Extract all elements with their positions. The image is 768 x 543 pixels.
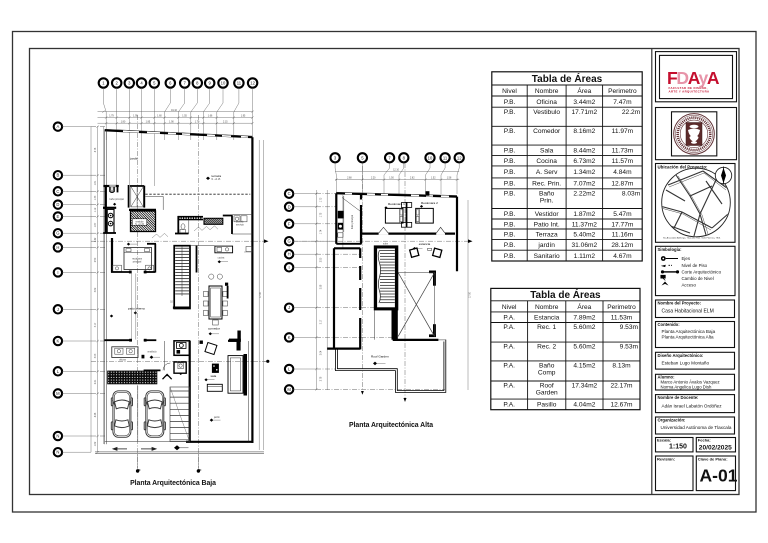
left grid dash-dot lines planta alta <box>316 194 445 390</box>
section cut horizontal planta alta <box>293 240 468 242</box>
svg-text:P.A.: P.A. <box>503 344 515 351</box>
svg-text:Nombre de Docente:: Nombre de Docente: <box>658 395 699 400</box>
svg-text:1.52: 1.52 <box>431 178 436 180</box>
svg-text:Sanitario: Sanitario <box>534 253 560 260</box>
svg-text:patio interno: patio interno <box>128 307 145 311</box>
svg-text:K: K <box>57 339 60 344</box>
svg-text:servicio: servicio <box>236 224 245 227</box>
svg-text:jardín: jardín <box>537 242 555 249</box>
door jamb brackets right wall <box>433 271 436 286</box>
kitchen <box>215 246 233 253</box>
svg-text:10: 10 <box>428 156 433 161</box>
svg-text:Acceso: Acceso <box>682 282 697 287</box>
svg-text:11.16m: 11.16m <box>612 232 634 239</box>
svg-text:4.26: 4.26 <box>95 412 97 417</box>
closet strip (black with dots) <box>179 216 204 220</box>
wall near sala <box>244 354 248 396</box>
property lines bottom <box>95 452 264 454</box>
svg-text:principal: principal <box>133 260 142 263</box>
svg-text:1.62: 1.62 <box>95 441 97 446</box>
svg-text:17.71m2: 17.71m2 <box>572 109 598 116</box>
svg-text:4.76: 4.76 <box>95 147 97 152</box>
oficina desks <box>112 347 138 358</box>
university seal <box>674 114 715 155</box>
svg-text:Comedor: Comedor <box>533 128 561 135</box>
svg-text:19.10: 19.10 <box>171 110 177 112</box>
svg-text:H: H <box>288 252 291 257</box>
svg-text:3.44m2: 3.44m2 <box>573 99 595 106</box>
svg-text:M: M <box>56 391 60 396</box>
vestibulo <box>142 355 145 359</box>
vestidor closet X <box>131 187 144 207</box>
diseño arquitectonico <box>656 352 735 369</box>
terraza label <box>206 177 210 180</box>
svg-text:recámara: recámara <box>132 257 142 260</box>
svg-text:9.53m: 9.53m <box>620 324 639 331</box>
svg-text:P.B.: P.B. <box>504 109 516 116</box>
recamara walls <box>362 233 455 235</box>
svg-text:1.85: 1.85 <box>146 121 151 123</box>
svg-text:7.89m2: 7.89m2 <box>573 315 595 322</box>
svg-text:P.A.: P.A. <box>503 324 515 331</box>
svg-text:2.62: 2.62 <box>410 178 415 180</box>
svg-text:8.44m2: 8.44m2 <box>573 148 595 155</box>
svg-text:Planta Arquitectónica Alta: Planta Arquitectónica Alta <box>662 334 715 339</box>
svg-text:P.B.: P.B. <box>504 221 516 228</box>
svg-text:1.61: 1.61 <box>95 180 97 185</box>
svg-text:1.11m2: 1.11m2 <box>574 253 596 260</box>
svg-text:4.15m2: 4.15m2 <box>573 363 595 370</box>
svg-text:Baño: Baño <box>539 363 555 370</box>
svg-text:jardín: jardín <box>213 416 220 419</box>
svg-text:11.73m: 11.73m <box>612 148 634 155</box>
svg-text:1.19: 1.19 <box>95 207 97 212</box>
svg-text:Área: Área <box>577 86 591 95</box>
svg-text:1.75: 1.75 <box>321 212 323 217</box>
svg-text:2.78: 2.78 <box>321 376 323 381</box>
svg-text:N. +0.15: N. +0.15 <box>135 224 144 226</box>
svg-text:P.B.: P.B. <box>504 190 516 197</box>
svg-text:Área: Área <box>577 302 591 311</box>
compass <box>715 167 731 183</box>
comedor table <box>209 286 222 319</box>
svg-text:17.90: 17.90 <box>470 291 472 297</box>
svg-text:2.22m2: 2.22m2 <box>573 190 595 197</box>
svg-text:jardín: jardín <box>129 157 138 161</box>
svg-text:D: D <box>288 204 291 209</box>
svg-text:terraza: terraza <box>212 174 222 178</box>
svg-text:A-01: A-01 <box>700 466 738 486</box>
stairwell planta baja <box>174 246 190 309</box>
svg-text:11: 11 <box>237 81 242 86</box>
svg-text:17.34m2: 17.34m2 <box>572 383 598 390</box>
svg-text:1.42: 1.42 <box>95 237 97 242</box>
svg-text:12: 12 <box>250 81 255 86</box>
svg-text:3.04: 3.04 <box>321 350 323 355</box>
svg-text:5.47m: 5.47m <box>613 211 632 218</box>
contenido <box>656 322 735 348</box>
wall area servicio <box>231 215 233 234</box>
svg-text:5.60m2: 5.60m2 <box>573 324 595 331</box>
svg-text:1.73: 1.73 <box>321 197 323 202</box>
svg-text:Roof Garden: Roof Garden <box>371 354 389 358</box>
alumno <box>656 374 735 390</box>
svg-text:Cocina: Cocina <box>536 158 557 165</box>
svg-text:Revisión:: Revisión: <box>657 456 675 461</box>
car 1 <box>111 391 132 438</box>
svg-text:J: J <box>288 305 290 310</box>
svg-text:Planta Arquitectónica Baja: Planta Arquitectónica Baja <box>662 329 716 334</box>
X brace double height <box>398 273 435 337</box>
svg-text:Patio Int.: Patio Int. <box>534 221 560 228</box>
sala furniture <box>205 343 217 355</box>
svg-text:Simbología:: Simbología: <box>658 247 682 252</box>
svg-text:12.87m: 12.87m <box>611 181 634 188</box>
svg-text:P.B.: P.B. <box>504 158 516 165</box>
svg-text:cocina: cocina <box>218 258 225 260</box>
svg-text:12.10: 12.10 <box>393 169 399 171</box>
svg-text:4.04m2: 4.04m2 <box>573 402 595 409</box>
svg-text:8.03m: 8.03m <box>622 190 641 197</box>
top leaders planta alta <box>335 163 459 195</box>
recamara walls bottom <box>111 271 131 273</box>
grid bubbles top planta alta <box>331 153 340 162</box>
svg-text:N: N <box>56 450 59 455</box>
svg-text:Vestidor: Vestidor <box>535 211 560 218</box>
area de servicio appliances <box>234 216 240 222</box>
svg-text:Pasillo: Pasillo <box>537 402 557 409</box>
grid bubbles A-N left of planta baja <box>54 122 62 130</box>
svg-text:Estancia: Estancia <box>534 315 560 322</box>
simbologia box <box>656 246 736 295</box>
svg-text:área de: área de <box>236 221 245 224</box>
zigzag near baño <box>107 209 114 233</box>
svg-text:3.17: 3.17 <box>95 322 97 327</box>
svg-text:Planta Arquitectónica Alta: Planta Arquitectónica Alta <box>349 422 433 429</box>
docente <box>656 395 735 413</box>
svg-text:ARTE Y ARQUITECTURA: ARTE Y ARQUITECTURA <box>669 90 711 94</box>
svg-text:6.73m2: 6.73m2 <box>573 158 595 165</box>
svg-text:3.69: 3.69 <box>95 287 97 292</box>
access arrow entry <box>163 374 172 379</box>
pasillo block walls <box>333 248 335 349</box>
section cut lines horizontal planta baja <box>91 241 264 361</box>
svg-text:22.2m: 22.2m <box>622 109 641 116</box>
svg-text:P.B.: P.B. <box>504 169 516 176</box>
svg-text:sala: sala <box>211 374 217 378</box>
svg-text:A. Serv: A. Serv <box>536 169 558 176</box>
svg-text:F: F <box>288 221 291 226</box>
svg-text:Nombre: Nombre <box>535 304 559 311</box>
outer walls planta alta <box>336 193 457 196</box>
svg-text:P.A.: P.A. <box>503 402 515 409</box>
svg-text:Casa Habitacional ELM: Casa Habitacional ELM <box>662 308 714 314</box>
svg-text:8.13m: 8.13m <box>612 363 631 370</box>
right dimension vertical planta alta <box>467 200 469 390</box>
svg-text:I: I <box>289 265 290 270</box>
svg-text:1.58: 1.58 <box>447 178 452 180</box>
svg-text:Escala:: Escala: <box>657 438 671 443</box>
svg-text:31.06m2: 31.06m2 <box>572 242 598 249</box>
svg-text:Comp: Comp <box>538 370 556 377</box>
svg-text:Nivel: Nivel <box>502 304 517 311</box>
svg-text:Perimetro: Perimetro <box>607 304 636 311</box>
svg-text:Prin.: Prin. <box>540 197 554 204</box>
svg-text:1.60: 1.60 <box>157 116 162 118</box>
svg-text:5.40m2: 5.40m2 <box>573 232 595 239</box>
logo box FDAyA <box>656 52 737 102</box>
svg-text:7.07m2: 7.07m2 <box>573 181 595 188</box>
svg-text:11: 11 <box>443 156 448 161</box>
svg-text:2.50: 2.50 <box>321 257 323 262</box>
svg-text:Nombre del Proyecto:: Nombre del Proyecto: <box>658 301 702 306</box>
svg-text:G: G <box>287 239 290 244</box>
dimension lines top planta alta <box>335 171 459 181</box>
svg-text:vestidor: vestidor <box>135 220 143 223</box>
svg-text:9.53m: 9.53m <box>620 344 639 351</box>
svg-text:P.B.: P.B. <box>504 128 516 135</box>
svg-text:Baño: Baño <box>539 190 555 197</box>
thick wall L <box>129 209 156 211</box>
access marker <box>174 445 180 450</box>
clave de plano <box>696 456 735 491</box>
sheet inner border <box>30 49 740 495</box>
svg-text:Universidad Autónoma de Tlaxca: Universidad Autónoma de Tlaxcala <box>661 425 732 430</box>
svg-text:Rec. 1: Rec. 1 <box>537 324 556 331</box>
svg-text:1.67: 1.67 <box>95 222 97 227</box>
nombre del proyecto <box>656 300 735 318</box>
svg-text:1.34m2: 1.34m2 <box>573 169 595 176</box>
svg-text:10: 10 <box>221 81 226 86</box>
svg-text:28.12m: 28.12m <box>611 242 634 249</box>
svg-text:Recámara 2: Recámara 2 <box>421 201 438 205</box>
svg-text:Cambio de Nivel: Cambio de Nivel <box>682 276 714 281</box>
svg-text:1.79: 1.79 <box>109 116 114 118</box>
table 2 <box>491 288 640 409</box>
svg-text:1.33: 1.33 <box>95 195 97 200</box>
svg-text:Perimetro: Perimetro <box>608 88 637 95</box>
left dimension verticals planta alta <box>315 190 343 391</box>
svg-text:baño principal: baño principal <box>110 198 125 201</box>
terraza dashed boundary <box>145 193 250 195</box>
svg-text:2.50: 2.50 <box>95 257 97 262</box>
svg-text:Organización:: Organización: <box>658 418 686 423</box>
svg-text:C: C <box>288 191 291 196</box>
svg-text:Rec. 2: Rec. 2 <box>537 344 556 351</box>
svg-text:K: K <box>288 335 291 340</box>
svg-text:Oficina: Oficina <box>536 99 557 106</box>
svg-text:1.55: 1.55 <box>182 116 187 118</box>
comedor walls <box>225 283 228 286</box>
hatched closet block <box>131 211 156 232</box>
svg-text:Diseño Arquitectónico:: Diseño Arquitectónico: <box>658 353 704 358</box>
svg-text:2.21: 2.21 <box>95 379 97 384</box>
car 2 <box>144 391 165 438</box>
right dimension lines planta baja <box>259 140 263 450</box>
svg-text:11.37m2: 11.37m2 <box>572 221 598 228</box>
svg-text:12: 12 <box>457 156 462 161</box>
svg-text:Recámara 1: Recámara 1 <box>388 202 405 206</box>
svg-text:3.17: 3.17 <box>321 319 323 324</box>
svg-text:P.B.: P.B. <box>504 242 516 249</box>
svg-text:Corte Arquitectónico: Corte Arquitectónico <box>682 269 722 274</box>
map circle <box>662 168 731 237</box>
svg-text:N. +0.15: N. +0.15 <box>212 179 221 181</box>
svg-text:Sta Anastablo Atlihingo, Tlaxc: Sta Anastablo Atlihingo, Tlaxcala, Tlax.… <box>663 237 721 240</box>
jardin marker bottom right <box>210 419 214 422</box>
svg-text:Esteban Lugo Montaño: Esteban Lugo Montaño <box>662 360 710 365</box>
dimension lines top planta baja <box>98 111 254 125</box>
grid leader lines top planta baja <box>103 88 252 186</box>
svg-text:Clave de Plano:: Clave de Plano: <box>698 456 728 461</box>
seal box <box>656 108 737 160</box>
svg-text:2.68: 2.68 <box>347 178 352 180</box>
section cut vertical planta alta <box>362 163 405 398</box>
svg-text:22.17m: 22.17m <box>611 383 634 390</box>
svg-text:E: E <box>57 214 60 219</box>
svg-text:I: I <box>57 270 58 275</box>
svg-text:2.15: 2.15 <box>223 121 228 123</box>
svg-text:Sala: Sala <box>540 148 554 155</box>
svg-text:comedor: comedor <box>208 327 220 331</box>
table 1 <box>492 72 642 261</box>
svg-text:4.84m: 4.84m <box>613 169 632 176</box>
left grid leaders planta baja <box>62 127 91 453</box>
svg-text:G: G <box>56 231 59 236</box>
svg-text:P.B.: P.B. <box>504 181 516 188</box>
svg-text:1.95: 1.95 <box>241 116 246 118</box>
svg-text:1:150: 1:150 <box>669 444 687 451</box>
wall below stairwell <box>392 310 398 340</box>
svg-text:B: B <box>57 173 60 178</box>
svg-text:P.A.: P.A. <box>503 315 515 322</box>
svg-text:P.A.: P.A. <box>503 363 515 370</box>
svg-text:sube: sube <box>383 244 389 246</box>
svg-text:1.70: 1.70 <box>195 121 200 123</box>
landing between bath and pasillo <box>334 247 360 249</box>
svg-text:1.90: 1.90 <box>169 121 174 123</box>
svg-text:Nivel: Nivel <box>502 88 517 95</box>
svg-text:1.66: 1.66 <box>208 116 213 118</box>
section cut lines vertical planta baja <box>138 115 199 468</box>
svg-text:P.B.: P.B. <box>504 148 516 155</box>
svg-text:1.50: 1.50 <box>389 178 394 180</box>
simbologia icons <box>661 256 666 261</box>
left dimension lines planta baja <box>91 125 104 453</box>
oficina walls <box>104 339 131 341</box>
beds <box>385 208 403 223</box>
svg-text:P.B.: P.B. <box>504 211 516 218</box>
baño principal walls <box>104 185 119 187</box>
svg-text:3.98: 3.98 <box>321 284 323 289</box>
svg-text:P.B.: P.B. <box>504 232 516 239</box>
svg-text:baño principal: baño principal <box>351 214 354 229</box>
svg-text:11.57m: 11.57m <box>612 158 634 165</box>
svg-text:3.03: 3.03 <box>95 353 97 358</box>
svg-text:8.16m2: 8.16m2 <box>573 128 595 135</box>
svg-text:oficina: oficina <box>119 359 126 361</box>
svg-text:20/02/2025: 20/02/2025 <box>699 444 732 451</box>
medio baño <box>174 362 186 373</box>
svg-text:Roof: Roof <box>540 383 554 390</box>
sanitario fixtures <box>181 224 185 229</box>
hatched strip right <box>204 218 223 224</box>
outer walls planta baja <box>105 130 253 137</box>
left grid dash-dot stubs <box>91 127 107 436</box>
ubicacion box <box>656 164 736 243</box>
svg-text:A: A <box>57 124 60 129</box>
svg-text:Fecha:: Fecha: <box>698 438 711 443</box>
svg-text:Ejes: Ejes <box>682 256 691 261</box>
svg-text:J: J <box>57 307 59 312</box>
svg-text:12.67m: 12.67m <box>611 402 634 409</box>
pergola dotted canopy over driveway <box>107 371 157 385</box>
svg-text:H: H <box>56 245 59 250</box>
escala <box>656 438 694 452</box>
car direction arrows <box>113 448 156 451</box>
svg-text:1.74: 1.74 <box>321 229 323 234</box>
svg-text:4.67m: 4.67m <box>613 253 632 260</box>
organizacion <box>656 417 735 434</box>
svg-text:11.97m: 11.97m <box>612 128 634 135</box>
walls around sanitario <box>177 216 179 234</box>
svg-text:estancia: estancia <box>419 242 431 246</box>
bathroom planta alta <box>360 195 362 244</box>
svg-text:M: M <box>287 387 291 392</box>
svg-text:Vestibulo: Vestibulo <box>533 109 560 116</box>
recamara principal bed <box>124 248 152 270</box>
svg-text:7.47m: 7.47m <box>613 99 632 106</box>
zigzag center <box>194 226 218 231</box>
svg-text:1.87m2: 1.87m2 <box>573 211 595 218</box>
svg-text:5.60m2: 5.60m2 <box>573 344 595 351</box>
title block divider <box>651 49 653 495</box>
sofa against wall <box>228 356 243 394</box>
svg-text:17.77m: 17.77m <box>611 221 634 228</box>
svg-text:P.B.: P.B. <box>504 253 516 260</box>
baño fixtures <box>110 187 114 193</box>
svg-text:Garden: Garden <box>536 390 558 397</box>
svg-text:2.20: 2.20 <box>371 178 376 180</box>
svg-text:17.90: 17.90 <box>260 291 262 297</box>
stairs to lower level <box>189 341 191 442</box>
wall below vestibulo <box>144 369 161 371</box>
fecha <box>696 438 735 452</box>
svg-text:Tabla de Áreas: Tabla de Áreas <box>530 288 601 301</box>
svg-text:C: C <box>56 189 59 194</box>
svg-text:Rec. Prin.: Rec. Prin. <box>532 181 561 188</box>
svg-text:D: D <box>56 202 59 207</box>
roof garden outline <box>336 340 446 393</box>
svg-text:1.80: 1.80 <box>121 121 126 123</box>
svg-text:Tabla de Áreas: Tabla de Áreas <box>532 72 603 85</box>
svg-text:P.B.: P.B. <box>504 99 516 106</box>
svg-text:Norma Angelica Lugo Dish: Norma Angelica Lugo Dish <box>661 384 712 389</box>
svg-text:Nombre: Nombre <box>535 88 559 95</box>
svg-text:vestíbulo: vestíbulo <box>147 351 157 354</box>
revision <box>656 456 694 491</box>
svg-text:Nivel de Piso: Nivel de Piso <box>682 263 708 268</box>
svg-text:N: N <box>56 434 59 439</box>
svg-text:P.A.: P.A. <box>503 383 515 390</box>
grid bubbles left planta alta <box>285 190 293 198</box>
svg-text:Adán Israel Labatón Ordóñez: Adán Israel Labatón Ordóñez <box>662 403 723 408</box>
svg-text:Planta Arquitectónica Baja: Planta Arquitectónica Baja <box>130 480 216 487</box>
grid bubbles 1-12 top of planta baja <box>99 78 108 87</box>
svg-text:Contenido:: Contenido: <box>658 322 680 327</box>
svg-text:11.53m: 11.53m <box>611 315 633 322</box>
svg-text:Terraza: Terraza <box>536 232 558 239</box>
